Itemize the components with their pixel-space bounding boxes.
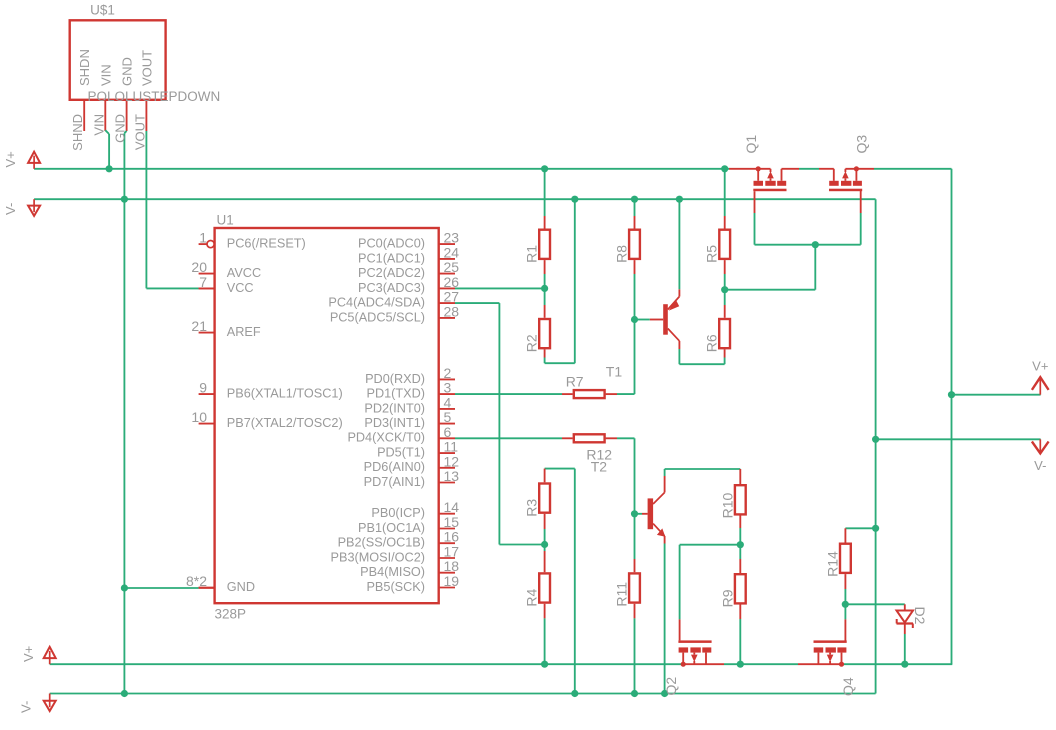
svg-text:T1: T1 [606,364,623,380]
svg-text:PB0(ICP): PB0(ICP) [371,506,425,520]
svg-text:23: 23 [444,230,460,246]
svg-text:PC0(ADC0): PC0(ADC0) [358,237,425,251]
svg-text:21: 21 [191,318,207,334]
svg-text:R3: R3 [524,499,540,517]
svg-text:PD2(INT0): PD2(INT0) [364,401,425,415]
svg-text:V+: V+ [1032,359,1048,374]
svg-text:11: 11 [444,439,459,455]
svg-text:Q2: Q2 [663,677,679,696]
svg-text:V+: V+ [21,646,36,662]
svg-text:26: 26 [444,274,460,290]
svg-text:V-: V- [3,203,18,215]
svg-text:PC6(/RESET): PC6(/RESET) [227,237,306,251]
svg-text:328P: 328P [215,607,247,622]
svg-text:PD0(RXD): PD0(RXD) [365,372,425,386]
svg-text:GND: GND [113,114,128,143]
svg-text:7: 7 [199,274,207,290]
svg-text:T2: T2 [591,459,608,475]
svg-text:PD3(INT1): PD3(INT1) [364,416,425,430]
svg-text:GND: GND [120,57,135,86]
svg-text:PC1(ADC1): PC1(ADC1) [358,251,425,265]
svg-text:R9: R9 [719,589,735,607]
svg-text:1: 1 [199,230,207,246]
svg-text:R6: R6 [704,334,720,352]
svg-text:8*2: 8*2 [186,573,207,589]
svg-text:PC2(ADC2): PC2(ADC2) [358,266,425,280]
svg-text:R8: R8 [614,245,630,263]
svg-text:SHND: SHND [70,114,85,151]
svg-text:24: 24 [444,244,460,260]
svg-text:18: 18 [444,558,460,574]
svg-text:D2: D2 [912,607,928,625]
svg-text:PB5(SCK): PB5(SCK) [366,580,425,594]
svg-text:U$1: U$1 [90,3,115,18]
svg-text:VOUT: VOUT [132,114,147,150]
svg-text:6: 6 [444,424,452,440]
svg-text:GND: GND [227,580,255,594]
svg-text:PD7(AIN1): PD7(AIN1) [364,475,425,489]
svg-text:PD4(XCK/T0): PD4(XCK/T0) [347,431,425,445]
svg-text:VIN: VIN [98,64,113,86]
svg-text:V-: V- [1034,458,1046,473]
svg-text:PB2(SS/OC1B): PB2(SS/OC1B) [338,536,425,550]
svg-text:AVCC: AVCC [227,266,261,280]
svg-text:Q4: Q4 [840,677,856,696]
svg-text:PC5(ADC5/SCL): PC5(ADC5/SCL) [330,310,425,324]
svg-text:Q3: Q3 [854,135,870,154]
svg-text:POLOLUSTEPDOWN: POLOLUSTEPDOWN [88,89,221,104]
svg-text:27: 27 [444,289,460,305]
svg-text:PD5(T1): PD5(T1) [377,446,425,460]
svg-text:PB7(XTAL2/TOSC2): PB7(XTAL2/TOSC2) [227,416,343,430]
svg-text:PC3(ADC3): PC3(ADC3) [358,281,425,295]
svg-text:PB6(XTAL1/TOSC1): PB6(XTAL1/TOSC1) [227,387,343,401]
svg-text:20: 20 [191,259,207,275]
svg-text:15: 15 [444,514,460,530]
svg-text:10: 10 [191,409,207,425]
svg-text:28: 28 [444,303,460,319]
svg-text:25: 25 [444,259,460,275]
svg-text:16: 16 [444,529,460,545]
svg-text:9: 9 [199,380,207,396]
svg-text:R1: R1 [524,245,540,263]
svg-text:R7: R7 [566,373,584,389]
svg-text:PD1(TXD): PD1(TXD) [366,387,425,401]
svg-text:VIN: VIN [91,114,106,136]
svg-text:SHDN: SHDN [77,49,92,86]
svg-text:19: 19 [444,573,460,589]
svg-text:4: 4 [444,394,452,410]
svg-text:14: 14 [444,499,460,515]
svg-text:R10: R10 [719,493,735,519]
svg-text:V+: V+ [3,151,18,167]
svg-text:VCC: VCC [227,281,254,295]
svg-text:13: 13 [444,468,460,484]
svg-text:AREF: AREF [227,325,261,339]
svg-text:PB3(MOSI/OC2): PB3(MOSI/OC2) [331,550,425,564]
svg-text:U1: U1 [217,213,234,228]
svg-text:V-: V- [19,701,34,713]
svg-text:PB4(MISO): PB4(MISO) [360,565,425,579]
svg-text:5: 5 [444,409,452,425]
svg-text:PC4(ADC4/SDA): PC4(ADC4/SDA) [328,296,425,310]
svg-text:Q1: Q1 [743,135,759,154]
svg-text:12: 12 [444,453,460,469]
svg-text:2: 2 [444,365,452,381]
svg-text:R4: R4 [524,588,540,606]
svg-text:17: 17 [444,544,460,560]
svg-text:R5: R5 [704,245,720,263]
svg-text:R11: R11 [614,582,630,607]
svg-text:PD6(AIN0): PD6(AIN0) [364,460,425,474]
svg-text:R14: R14 [824,551,840,577]
svg-text:VOUT: VOUT [139,50,154,86]
svg-text:3: 3 [444,380,452,396]
svg-text:R2: R2 [524,334,540,352]
svg-text:PB1(OC1A): PB1(OC1A) [358,521,425,535]
